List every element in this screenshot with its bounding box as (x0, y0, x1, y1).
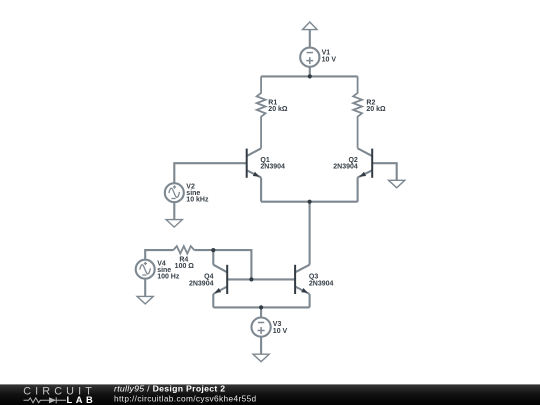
transistor Q2 (358, 148, 373, 201)
svg-text:rtully95 / Design Project 2: rtully95 / Design Project 2 (114, 383, 225, 393)
transistor Q3 emitter arrow (301, 288, 308, 293)
svg-text:2N3904: 2N3904 (260, 164, 285, 171)
voltage source V3 (252, 318, 271, 337)
ground (V4) (137, 296, 153, 304)
svg-text:10 kHz: 10 kHz (186, 196, 209, 203)
ground (V3) (253, 354, 269, 362)
node Q3/Q4 base rail junction (249, 277, 253, 281)
wire Q4 base to Q3 base (227, 278, 295, 280)
transistor Q1 emitter arrow (253, 172, 260, 177)
svg-text:20 kΩ: 20 kΩ (268, 106, 288, 113)
node emitter rail junction (308, 200, 312, 204)
ground (Q2 base) (389, 180, 405, 188)
voltage source V1 (300, 48, 319, 67)
wire top rail (261, 75, 358, 77)
transistor Q1 (247, 148, 261, 201)
footer bar (0, 384, 540, 405)
transistor Q2 emitter arrow (359, 172, 366, 177)
transistor Q1 base bar (246, 149, 248, 178)
wire bottom rail (213, 306, 309, 308)
wire V1 to top rail (309, 67, 311, 77)
svg-text:2N3904: 2N3904 (309, 280, 334, 287)
wire R4 to base drop (194, 250, 251, 279)
svg-text:10 V: 10 V (322, 57, 337, 64)
wire Q2 base to ground (372, 163, 397, 180)
svg-text:2N3904: 2N3904 (189, 280, 214, 287)
node R4 / Q4 collector junction (211, 248, 215, 252)
ground (V2) (166, 220, 182, 228)
wire V4 to ground (144, 279, 146, 297)
svg-text:100 Ω: 100 Ω (175, 263, 195, 270)
svg-text:20 kΩ: 20 kΩ (366, 106, 386, 113)
power supply arrow (V+ node) (303, 22, 318, 48)
wire V2 to Q1 base (174, 163, 246, 183)
transistor Q4 base bar (226, 265, 228, 294)
svg-text:10 V: 10 V (273, 328, 288, 335)
svg-text:2N3904: 2N3904 (333, 164, 358, 171)
svg-text:100 Hz: 100 Hz (157, 273, 180, 280)
wire emitter rail to Q3 collector (309, 202, 311, 265)
voltage source V4 (sine) (136, 260, 155, 279)
wire V4 to R4 (145, 250, 173, 260)
wire V2 to ground (173, 202, 175, 219)
resistor R4 (173, 246, 194, 254)
resistor R2 (353, 76, 362, 148)
wire rail to V3 (260, 307, 262, 317)
voltage source V2 (sine) (165, 183, 184, 202)
transistor Q4 emitter arrow (214, 288, 221, 293)
solid marks: transistor bars, junction dots, emitter arrows (211, 74, 372, 309)
transistor Q3 (295, 265, 310, 308)
transistor Q4 (213, 250, 227, 307)
transistor Q2 base bar (371, 149, 373, 178)
node V1 / top rail junction (308, 74, 312, 78)
transistor Q3 base bar (294, 265, 296, 294)
resistor R1 (257, 76, 266, 148)
node bottom rail / V3 junction (259, 305, 263, 309)
svg-text:LAB: LAB (67, 395, 97, 405)
wire emitter rail (261, 201, 358, 203)
svg-text:http://circuitlab.com/cysv6khe: http://circuitlab.com/cysv6khe4r55d (114, 394, 257, 404)
wire V3 to ground (260, 337, 262, 355)
CircuitLab logo (23, 386, 96, 405)
svg-text:V1: V1 (322, 49, 331, 56)
